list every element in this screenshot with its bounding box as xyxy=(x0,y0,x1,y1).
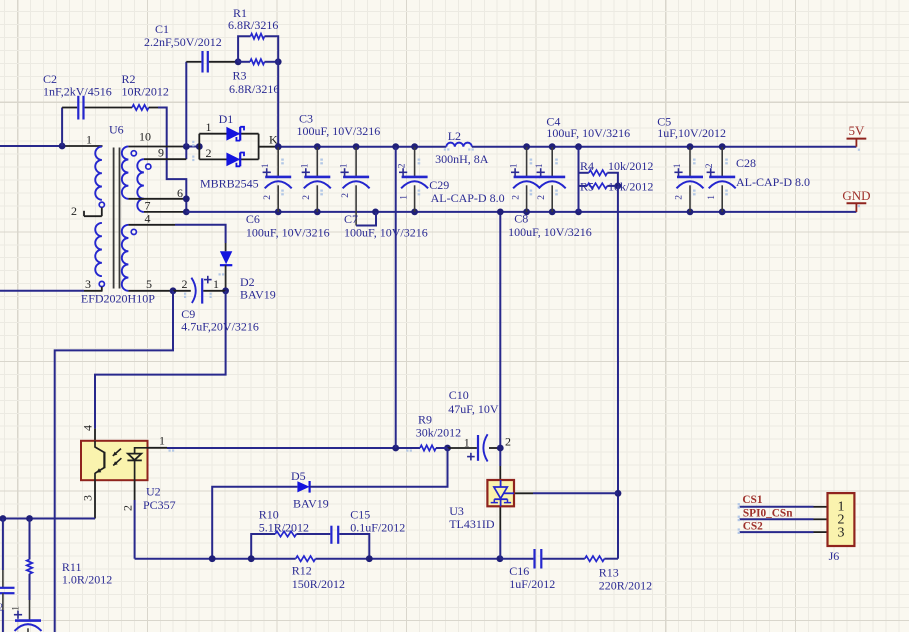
svg-text:U2: U2 xyxy=(146,485,161,499)
svg-text:2: 2 xyxy=(398,163,408,168)
svg-text:10R/2012: 10R/2012 xyxy=(122,85,169,99)
svg-text:C8: C8 xyxy=(514,212,528,226)
svg-text:BAV19: BAV19 xyxy=(240,288,276,302)
svg-text:47uF, 10V: 47uF, 10V xyxy=(448,402,499,416)
svg-text:C15: C15 xyxy=(350,508,370,522)
svg-text:AL-CAP-D 8.0: AL-CAP-D 8.0 xyxy=(431,191,505,205)
svg-text:C1: C1 xyxy=(155,22,169,36)
svg-text:2: 2 xyxy=(263,195,273,200)
svg-text:2: 2 xyxy=(675,195,685,200)
svg-text:6.8R/3216: 6.8R/3216 xyxy=(228,18,278,32)
svg-text:1: 1 xyxy=(707,195,717,200)
svg-text:R12: R12 xyxy=(292,563,312,577)
svg-text:CS1: CS1 xyxy=(742,494,762,506)
svg-text:1: 1 xyxy=(464,436,470,450)
svg-text:2: 2 xyxy=(0,603,3,614)
svg-text:1: 1 xyxy=(261,163,271,168)
svg-text:SPI0_CSn: SPI0_CSn xyxy=(743,508,793,520)
svg-text:6.8R/3216: 6.8R/3216 xyxy=(229,82,279,96)
svg-text:BAV19: BAV19 xyxy=(293,497,329,511)
svg-text:10k/2012: 10k/2012 xyxy=(608,180,653,194)
svg-text:2: 2 xyxy=(71,204,77,218)
svg-text:C29: C29 xyxy=(429,178,449,192)
svg-text:K: K xyxy=(269,133,278,147)
svg-text:1: 1 xyxy=(159,434,165,448)
svg-text:R4: R4 xyxy=(580,159,594,173)
svg-text:10k/2012: 10k/2012 xyxy=(608,159,653,173)
svg-text:6: 6 xyxy=(177,186,183,200)
svg-text:R5: R5 xyxy=(580,180,594,194)
svg-text:5.1R/2012: 5.1R/2012 xyxy=(259,521,309,535)
svg-text:100uF, 10V/3216: 100uF, 10V/3216 xyxy=(344,226,428,240)
svg-text:100uF, 10V/3216: 100uF, 10V/3216 xyxy=(246,226,330,240)
svg-text:TL431ID: TL431ID xyxy=(449,517,495,531)
svg-text:5: 5 xyxy=(146,277,152,291)
svg-text:1: 1 xyxy=(12,606,22,611)
svg-text:3: 3 xyxy=(838,526,845,541)
svg-text:9: 9 xyxy=(158,146,164,160)
svg-text:4.7uF,20V/3216: 4.7uF,20V/3216 xyxy=(181,320,259,334)
svg-text:U3: U3 xyxy=(449,504,464,518)
svg-text:220R/2012: 220R/2012 xyxy=(599,579,652,593)
svg-text:100uF, 10V/3216: 100uF, 10V/3216 xyxy=(297,124,381,138)
svg-text:R13: R13 xyxy=(599,566,619,580)
svg-text:1: 1 xyxy=(86,133,92,147)
svg-text:30k/2012: 30k/2012 xyxy=(416,426,461,440)
svg-text:1: 1 xyxy=(206,120,212,134)
svg-text:1uF,10V/2012: 1uF,10V/2012 xyxy=(657,126,726,140)
svg-text:C28: C28 xyxy=(736,156,756,170)
svg-text:2: 2 xyxy=(537,195,547,200)
svg-text:D1: D1 xyxy=(219,112,234,126)
svg-text:1: 1 xyxy=(339,163,349,168)
svg-text:C16: C16 xyxy=(509,564,529,578)
svg-text:AL-CAP-D 8.0: AL-CAP-D 8.0 xyxy=(736,175,810,189)
svg-text:1: 1 xyxy=(213,277,219,291)
svg-text:J6: J6 xyxy=(829,549,840,563)
svg-text:4: 4 xyxy=(145,212,151,226)
svg-text:2: 2 xyxy=(705,163,715,168)
svg-text:R10: R10 xyxy=(259,508,279,522)
svg-text:2.2nF,50V/2012: 2.2nF,50V/2012 xyxy=(144,35,222,49)
svg-text:1nF,2kV/4516: 1nF,2kV/4516 xyxy=(43,85,112,99)
svg-text:1: 1 xyxy=(673,163,683,168)
svg-text:2: 2 xyxy=(505,434,511,448)
svg-text:PC357: PC357 xyxy=(143,498,176,512)
svg-text:10: 10 xyxy=(139,130,151,144)
svg-text:2: 2 xyxy=(302,195,312,200)
svg-text:U6: U6 xyxy=(109,123,124,137)
svg-text:150R/2012: 150R/2012 xyxy=(292,577,345,591)
svg-text:D5: D5 xyxy=(291,469,306,483)
svg-text:EFD2020H10P: EFD2020H10P xyxy=(81,292,155,306)
svg-text:2: 2 xyxy=(341,193,351,198)
svg-text:1: 1 xyxy=(510,163,520,168)
svg-text:4: 4 xyxy=(81,425,95,431)
svg-text:7: 7 xyxy=(145,199,151,213)
svg-text:2: 2 xyxy=(182,277,188,291)
svg-text:1: 1 xyxy=(300,163,310,168)
svg-text:100uF, 10V/3216: 100uF, 10V/3216 xyxy=(508,225,592,239)
svg-text:GND: GND xyxy=(842,188,870,203)
svg-text:MBRB2545: MBRB2545 xyxy=(200,177,259,191)
svg-text:L2: L2 xyxy=(448,129,461,143)
svg-text:300nH, 8A: 300nH, 8A xyxy=(435,152,489,166)
svg-text:CS2: CS2 xyxy=(743,520,763,532)
svg-text:3: 3 xyxy=(85,277,91,291)
svg-text:C10: C10 xyxy=(449,388,469,402)
svg-text:3: 3 xyxy=(81,495,95,501)
svg-text:1uF/2012: 1uF/2012 xyxy=(509,577,555,591)
svg-text:5V: 5V xyxy=(849,123,866,138)
svg-text:100uF, 10V/3216: 100uF, 10V/3216 xyxy=(546,126,630,140)
svg-text:C7: C7 xyxy=(344,212,358,226)
svg-text:1: 1 xyxy=(535,163,545,168)
svg-text:2: 2 xyxy=(206,146,212,160)
svg-text:2: 2 xyxy=(121,505,135,511)
svg-text:1.0R/2012: 1.0R/2012 xyxy=(62,573,112,587)
svg-text:0.1uF/2012: 0.1uF/2012 xyxy=(350,521,405,535)
svg-text:C6: C6 xyxy=(246,212,260,226)
svg-text:R9: R9 xyxy=(418,413,432,427)
svg-text:1: 1 xyxy=(399,195,409,200)
svg-text:R3: R3 xyxy=(233,69,247,83)
svg-text:2: 2 xyxy=(511,195,521,200)
